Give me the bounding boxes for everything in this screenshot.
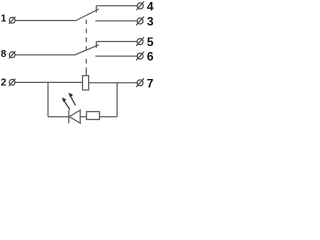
wire pin 6 bbox=[95, 55, 137, 57]
switch pole 2 lever bbox=[75, 45, 99, 55]
linkage stub to coil bbox=[85, 68, 87, 76]
svg-text:8: 8 bbox=[1, 49, 7, 60]
terminal pin 7 bbox=[136, 78, 144, 87]
LED D1 cathode bar bbox=[68, 110, 70, 124]
terminal pin 4 bbox=[136, 1, 144, 10]
resistor R1 bbox=[87, 112, 100, 120]
LED D1 triangle bbox=[69, 110, 80, 123]
wire pin 4 bbox=[96, 5, 137, 7]
LED light arrow 2 bbox=[69, 93, 76, 106]
wire pin 5 bbox=[96, 41, 137, 43]
wire left branch down bbox=[47, 82, 49, 116]
wire pin 2 to coil bbox=[15, 81, 82, 83]
wire coil to pin 7 bbox=[89, 82, 138, 84]
svg-text:1: 1 bbox=[1, 14, 7, 25]
svg-text:5: 5 bbox=[147, 35, 154, 49]
LED light arrow 1 bbox=[62, 98, 70, 110]
svg-text:7: 7 bbox=[147, 77, 154, 91]
terminal pin 2 bbox=[9, 79, 16, 86]
contact post pin 5 bbox=[95, 41, 97, 47]
svg-text:6: 6 bbox=[147, 49, 154, 63]
coil K1 bbox=[83, 76, 89, 90]
switch pole 1 lever bbox=[75, 9, 99, 21]
terminal pin 8 bbox=[9, 51, 16, 58]
wire branch bottom left bbox=[48, 116, 69, 118]
contact post pin 4 bbox=[95, 6, 97, 13]
wire pin 3 bbox=[95, 20, 137, 22]
svg-text:4: 4 bbox=[147, 0, 154, 13]
wire pin 1 common bbox=[15, 20, 75, 22]
svg-text:2: 2 bbox=[1, 78, 7, 89]
svg-text:3: 3 bbox=[147, 15, 154, 29]
wire resistor to right branch bbox=[100, 116, 118, 118]
terminal pin 3 bbox=[136, 17, 144, 26]
wire right branch up bbox=[116, 83, 118, 117]
terminal pin 1 bbox=[9, 17, 16, 24]
terminal pin 6 bbox=[136, 52, 144, 61]
dashed actuator linkage bbox=[85, 20, 87, 64]
wire pin 8 common bbox=[15, 54, 74, 56]
wire LED to resistor bbox=[80, 116, 86, 118]
terminal pin 5 bbox=[136, 37, 144, 46]
